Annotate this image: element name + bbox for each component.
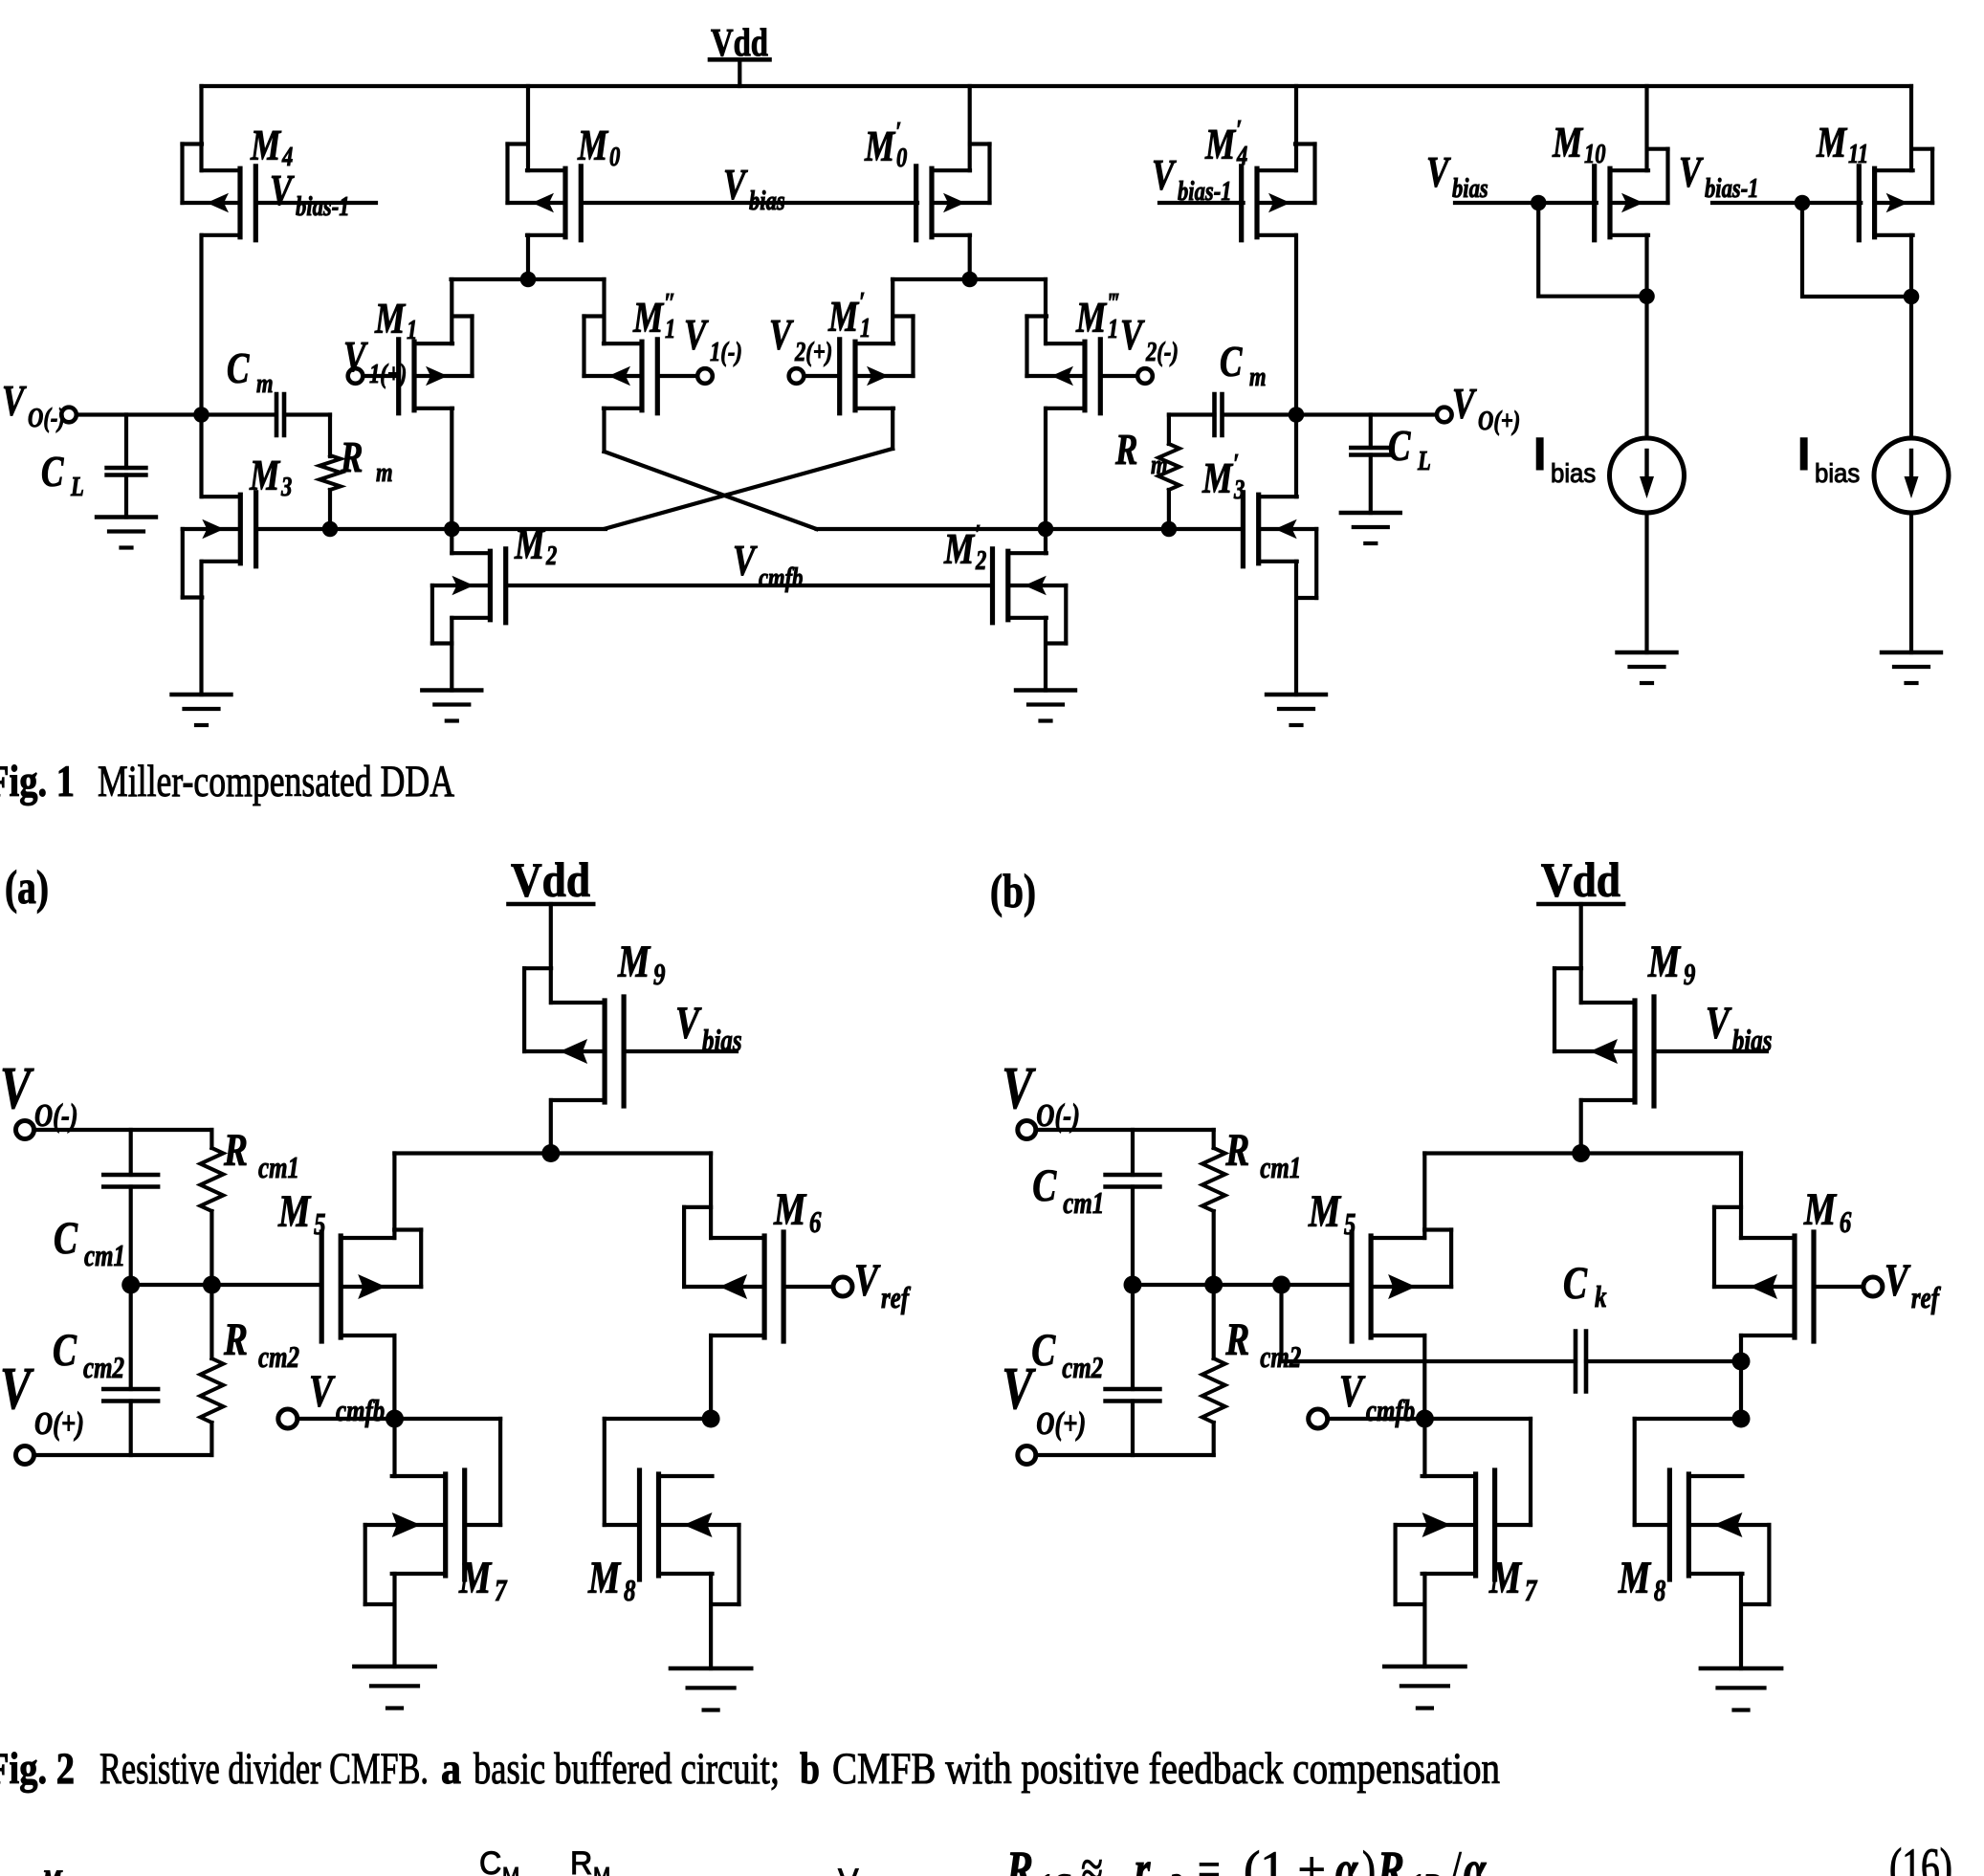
node Rm right [1161,521,1178,538]
wire M7b gate tie [1529,1419,1532,1525]
svg-text:V: V [1452,380,1477,428]
svg-text:bias: bias [1452,172,1488,203]
label Vbias of M9a [675,999,742,1058]
transistor M6a [684,1207,833,1341]
svg-text:R: R [340,433,363,481]
node Ccma [121,1276,140,1294]
label Vcmfb [733,537,803,593]
terminal VO(+)b [1018,1446,1036,1465]
ground of CL right [1341,513,1400,543]
svg-text:cm1: cm1 [1063,1186,1104,1221]
svg-text:bias: bias [1732,1024,1773,1058]
ground of M3' [1267,695,1326,725]
svg-text:ref: ref [1911,1281,1941,1315]
wire Cm right corner [1169,412,1215,416]
label V1(+) [343,333,407,389]
svg-text:cm2: cm2 [83,1351,124,1385]
transistor M10 [1595,149,1668,240]
label Vrefa [854,1256,911,1315]
wire Ibias left to ground [1644,513,1648,652]
label M9b [1647,938,1695,992]
svg-text:a: a [441,1744,461,1794]
wire M10 source [1644,235,1648,438]
transistor M5b [1352,1230,1451,1342]
wire M10 gate-source box [1538,203,1646,297]
svg-text:m: m [1249,361,1267,391]
svg-text:M: M [1204,121,1236,168]
wire M11 drain to rail [1909,86,1913,170]
svg-text:C: C [54,1214,78,1264]
svg-text:7: 7 [1525,1574,1538,1608]
wire M8a gate wire [605,1417,711,1421]
wire M8b gate wire [1635,1417,1741,1421]
ground of M3 [172,695,231,725]
label M8a [587,1554,635,1608]
label Rcm2a [223,1315,299,1375]
wire M2' drain [1044,529,1047,553]
svg-text:O(+): O(+) [1036,1405,1086,1442]
svg-text:M: M [1075,294,1107,342]
svg-text:V: V [1885,1256,1911,1306]
wire M6a source [709,1154,713,1239]
svg-text:(a): (a) [5,860,49,914]
wire left tail rail [452,277,605,281]
wire M5b source [1422,1154,1426,1239]
svg-text:cmfb: cmfb [759,562,803,592]
svg-text:cm1: cm1 [258,1151,299,1185]
svg-text:V: V [1706,999,1732,1048]
label CL left [41,448,84,502]
svg-text:C: C [1220,338,1243,386]
wire VO(+)a [34,1453,212,1457]
power Vdd symbol fig2a [509,854,594,908]
svg-text:cm1: cm1 [1260,1151,1301,1185]
svg-text:I: I [1533,430,1546,480]
ground of M7b [1384,1666,1465,1709]
caption Fig.2 [0,1744,1500,1794]
svg-text:R: R [1377,1842,1404,1876]
wire Cm to Rm corner [285,415,331,457]
label VO(-)b [1002,1055,1080,1133]
svg-text:Vdd: Vdd [711,20,768,64]
svg-text:r: r [1135,1842,1151,1876]
svg-text:R: R [223,1126,248,1176]
label Ccm1a [54,1214,125,1273]
svg-text:V: V [1679,148,1704,196]
wire M2 source to ground [450,618,453,691]
svg-text:ref: ref [881,1281,911,1315]
label Ccm1b [1032,1161,1104,1221]
label Rcm2b [1224,1315,1301,1375]
svg-text:(16): (16) [1889,1838,1952,1876]
equation number (16) [1889,1838,1952,1876]
label Vbias-1 of M4 [270,166,350,222]
svg-text:C: C [41,448,64,496]
svg-text:o2: o2 [1156,1866,1182,1876]
svg-text:1: 1 [407,314,417,344]
wire M3' drain [1294,415,1298,497]
node Vcmfba [386,1410,404,1428]
capacitor Cm right [1215,394,1223,435]
wire M4' drain [1294,235,1298,415]
label M8b [1618,1554,1665,1608]
svg-text:M: M [827,293,859,341]
wire M8a source [709,1574,713,1668]
svg-text:m: m [376,456,393,487]
wire M1' drain [606,408,893,529]
wire M1''' gate lead [1100,374,1137,378]
svg-text:V: V [2,377,27,425]
terminal VO(-) [61,408,77,423]
svg-text:M: M [250,121,281,169]
capacitor CL left [107,415,146,518]
node M2' drain [1038,521,1054,538]
wire Cm right to node [1223,412,1296,416]
svg-text:/: / [1450,1842,1462,1876]
resistor Rcm1b [1202,1130,1225,1285]
svg-text:(b): (b) [990,864,1036,917]
transistor M9b [1554,968,1767,1106]
transistor M4 [183,144,377,240]
svg-text:v: v [1490,1866,1503,1876]
svg-text:V: V [0,1356,34,1422]
wire Vbias gate line M0-M0' [581,201,917,205]
svg-text:M: M [514,520,545,568]
svg-text:V: V [1120,311,1145,359]
label VO(-)a [0,1055,78,1133]
svg-text:11: 11 [1848,138,1868,168]
label Rm right [1114,426,1167,480]
wire M4 drain [199,235,203,415]
label M5a [277,1187,325,1242]
terminal VO(-)b [1018,1121,1036,1139]
transistor M9a [524,968,737,1106]
ground of M2' [1016,691,1075,721]
transistor M1 [399,317,473,413]
node Rcma [203,1276,221,1294]
wire M1' source to tail [891,279,894,343]
transistor M0' [916,144,990,240]
svg-text:Miller-compensated DDA: Miller-compensated DDA [98,757,454,806]
node M11 source [1904,289,1920,305]
svg-text:M: M [249,452,280,499]
node M11 gate [1795,195,1811,211]
svg-text:Resistive divider CMFB.: Resistive divider CMFB. [99,1744,429,1794]
svg-text:1C: 1C [1039,1866,1070,1876]
svg-text:M: M [1488,1554,1523,1603]
svg-text:V: V [1152,151,1177,199]
transistor M2 [432,549,506,644]
svg-text:M: M [1201,454,1233,502]
svg-text:bias-1: bias-1 [296,190,350,221]
wire mid line fig2b [1133,1283,1352,1287]
svg-text:2(-): 2(-) [1145,336,1179,366]
text fragment V [838,1863,859,1876]
svg-text:6: 6 [1840,1205,1852,1240]
label V1(-) [684,311,742,367]
svg-text:O(-): O(-) [28,402,65,432]
wire M9b source [1579,1100,1583,1154]
terminal VO(+)a [16,1446,34,1465]
resistor Rcm2a [200,1285,223,1455]
svg-text:m: m [1151,449,1168,479]
wire M8b gate tie [1633,1419,1637,1525]
wire M7b drain [1422,1419,1426,1476]
label VO(-) [2,377,65,433]
svg-text:m: m [256,367,274,398]
transistor M2' [993,549,1067,644]
ground of Ibias left [1618,652,1677,683]
capacitor Ccm2b [1106,1285,1160,1455]
resistor Rcm1a [200,1130,223,1285]
label V2(+) [769,311,832,367]
terminal VO(+) [1437,408,1452,423]
capacitor Ck [1576,1332,1586,1392]
wire M1'' source to tail [602,279,606,343]
label Vcmfbb [1339,1367,1415,1428]
wire M0 source to rail [526,86,530,170]
node Vcmfbb [1416,1410,1434,1428]
wire Vbias-1 lead M11 [1712,201,1861,205]
svg-text:M: M [277,1187,312,1237]
wire VO(-)a [34,1128,212,1132]
wire M7a gate tie [498,1419,502,1525]
label VO(+) [1452,380,1520,436]
svg-text:M: M [1618,1554,1652,1603]
ground of M8b [1701,1668,1781,1710]
equation fragment [1005,1841,1503,1876]
terminal V1(+) [348,368,364,384]
label Rcm1a [223,1126,299,1185]
resistor Rm left [320,455,341,529]
svg-text:R: R [1114,426,1137,474]
wire source rail fig2b [1424,1151,1741,1155]
wire M0' drain [968,235,972,279]
svg-text:V: V [1002,1055,1036,1121]
wire M1'' drain [605,408,817,529]
label M11 [1816,119,1868,169]
svg-text:3: 3 [1233,474,1245,504]
transistor M8b [1635,1470,1770,1604]
wire M3' source to ground [1294,562,1298,695]
transistor M4' [1242,144,1315,240]
label M5b [1308,1187,1356,1242]
wire M0' source to rail [968,86,972,170]
node M2 drain [444,521,460,538]
wire M7a drain [392,1419,396,1476]
svg-text:M: M [593,1863,610,1876]
svg-text:C: C [479,1845,501,1876]
svg-text:M: M [577,121,608,169]
wire M3 drain [199,415,203,497]
svg-text:1D: 1D [1410,1866,1443,1876]
label (b) [990,864,1036,917]
svg-text:V: V [769,311,794,359]
ground of CL left [97,518,156,548]
wire M3 source to ground [199,562,203,695]
svg-text:6: 6 [809,1205,822,1240]
label M9a [617,938,665,992]
svg-text:1: 1 [1108,313,1118,343]
transistor M3 [183,493,256,598]
wire M1''' source to tail [1044,279,1047,343]
svg-text:0: 0 [609,141,620,171]
label Vbias-1 of M4' [1152,151,1232,207]
wire VO(+)b [1036,1453,1214,1457]
svg-text:V: V [1426,148,1451,196]
current source Ibias right [1874,438,1949,513]
label Rm left [340,433,392,488]
svg-text:M: M [1816,119,1847,166]
svg-text:4: 4 [1236,140,1247,170]
svg-text:8: 8 [1654,1574,1665,1608]
wire M3' gate line [817,527,1243,531]
svg-text:M: M [864,122,895,170]
node Rcm2b stub top [1272,1276,1290,1294]
node M9b source [1572,1144,1590,1162]
svg-text:Vdd: Vdd [511,854,590,908]
svg-text:Fig. 2: Fig. 2 [0,1744,75,1794]
svg-text:cmfb: cmfb [336,1394,385,1428]
label Cm left [227,344,274,399]
node Ck right [1732,1353,1751,1371]
wire Ibias right to ground [1909,513,1913,652]
label M1' [827,286,871,342]
svg-text:O(+): O(+) [1478,405,1520,435]
svg-text:2: 2 [545,540,557,570]
wire M5a source [392,1154,396,1239]
svg-text:bias: bias [1815,458,1860,488]
svg-text:Vdd: Vdd [1541,854,1620,908]
wire M5b drain [1422,1335,1426,1419]
svg-text:M: M [617,938,651,987]
svg-text:V: V [838,1863,859,1876]
node M9a source [541,1144,560,1162]
wire M7b source [1422,1574,1426,1666]
svg-text:cm2: cm2 [1062,1351,1103,1385]
svg-text:L: L [1417,445,1431,475]
node Rcmb [1204,1276,1223,1294]
terminal V1(-) [697,368,713,384]
label CL right [1388,422,1431,476]
svg-text:M: M [374,295,406,342]
transistor M5a [321,1230,421,1342]
svg-text:(1 +: (1 + [1244,1841,1326,1876]
svg-text:k: k [1595,1280,1607,1314]
capacitor Ccm1b [1106,1130,1160,1285]
svg-text:5: 5 [314,1207,325,1242]
svg-text:C: C [1031,1326,1056,1376]
ground of M2 [422,691,481,721]
label M3 [249,452,292,502]
text fragment RM [570,1845,610,1876]
wire M3 gate line [256,527,606,531]
svg-text:V: V [343,333,368,381]
wire M11 gate-source box [1802,203,1911,297]
wire M5a drain [392,1335,396,1419]
svg-text:cm2: cm2 [258,1340,299,1375]
text fragment M bottom-left [41,1864,63,1876]
wire M1'' gate lead [657,374,697,378]
svg-text:C: C [1032,1161,1057,1211]
svg-text:C: C [227,344,250,392]
svg-text:1: 1 [665,313,675,343]
label Ibias left [1533,430,1596,488]
svg-text:α: α [1335,1842,1358,1876]
label (a) [5,860,49,914]
svg-text:7: 7 [495,1574,508,1608]
svg-text:R: R [570,1845,592,1876]
node VO(+) [1289,407,1305,423]
svg-text:V: V [675,999,702,1048]
svg-text:5: 5 [1344,1207,1356,1242]
wire mid line fig2a [131,1283,322,1287]
transistor M7a [365,1470,500,1604]
label Vcmfba [309,1367,385,1428]
transistor M8a [605,1470,739,1604]
text fragment CM [479,1845,519,1876]
wire M1 source to tail [450,279,453,343]
label M2' [943,519,986,575]
wire M1 drain [450,408,453,529]
wire M4 source to rail [199,86,203,170]
transistor M3' [1243,493,1316,598]
wire Vbias lead M10 [1455,201,1597,205]
wire M0 drain [526,235,530,279]
svg-text:L: L [70,471,84,501]
label M4' [1204,114,1247,170]
svg-text:10: 10 [1584,138,1606,168]
wire VO(+) to terminal [1296,412,1437,416]
label Ibias right [1797,430,1860,488]
svg-text:O(+): O(+) [34,1405,84,1442]
label VO(+)a [0,1356,84,1441]
wire Vcmfb line [506,584,991,587]
svg-text:M: M [1552,119,1583,166]
wire M1 gate lead [363,374,398,378]
svg-text:3: 3 [280,471,292,501]
svg-text:V: V [733,537,758,585]
resistor Rcm2b [1202,1285,1225,1455]
terminal V2(+) [789,368,805,384]
svg-text:bias: bias [1551,458,1596,488]
power Vdd symbol fig2b [1538,854,1623,908]
wire Vbias-1 lead M4' [1159,201,1244,205]
transistor M11 [1859,149,1932,240]
svg-text:M: M [1647,938,1682,987]
terminal Vrefb [1863,1277,1883,1296]
wire Ck line left [1282,1359,1576,1363]
wire M6a drain [709,1335,713,1419]
svg-text:M: M [502,1863,519,1876]
wire M6b source [1739,1154,1743,1239]
svg-text:M: M [1308,1187,1342,1237]
svg-text:1(-): 1(-) [710,336,742,366]
svg-text:1(+): 1(+) [369,358,407,388]
label Vrefb [1885,1256,1941,1315]
svg-text:Fig. 1: Fig. 1 [0,757,75,806]
svg-text:M: M [1803,1185,1838,1235]
node M8a drain [702,1410,720,1428]
ground of M8a [671,1668,751,1710]
label M0 [577,121,620,172]
svg-text:V: V [270,166,295,214]
svg-text:R: R [1005,1842,1033,1876]
wire Rcm2b stub [1279,1285,1283,1361]
svg-text:I: I [1797,430,1810,480]
label M1 [374,295,417,345]
capacitor Ccm1a [103,1130,158,1285]
